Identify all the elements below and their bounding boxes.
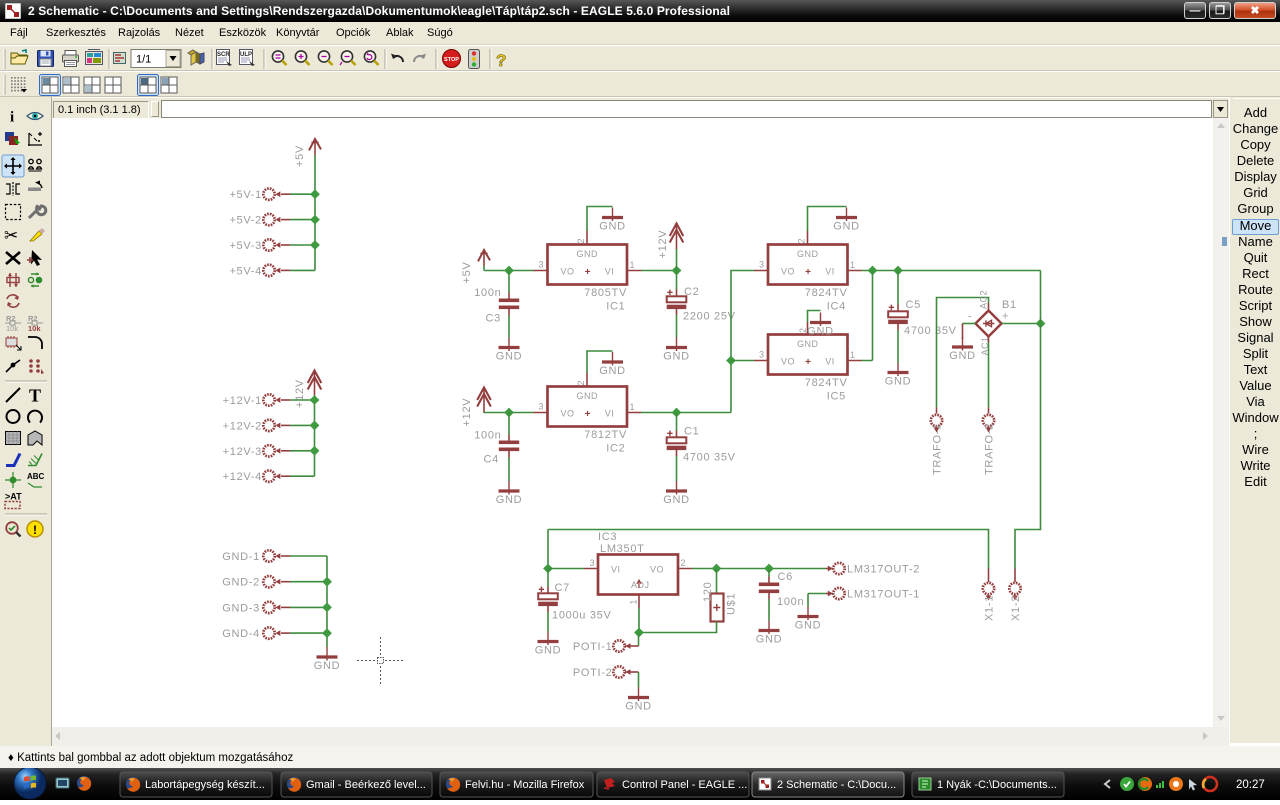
wire IC4 pin1 output bus — [862, 270, 1041, 272]
voltage regulator IC3 LM350T — [584, 569, 692, 609]
junction B1 plus rail — [1036, 319, 1046, 329]
capacitor C2 2200u 25V — [667, 290, 687, 316]
wire +12V-2 to rail — [290, 424, 315, 426]
svg-text:3: 3 — [538, 402, 544, 412]
op-amp U1 regulator IC1 7805TV — [534, 231, 642, 285]
svg-text:X1-2: X1-2 — [1010, 595, 1022, 621]
svg-text:POTI-2: POTI-2 — [573, 667, 613, 679]
wire B1 plus to output rail — [1002, 323, 1041, 325]
svg-text:1: 1 — [850, 350, 856, 360]
svg-text:1 Nyák -C:\Documents...: 1 Nyák -C:\Documents... — [937, 779, 1057, 791]
wire C4 bottom — [508, 458, 510, 482]
capacitor C4 100n — [499, 435, 519, 458]
svg-text:C6: C6 — [778, 571, 793, 583]
svg-text:100n: 100n — [777, 596, 804, 608]
wire AC1 to TRAFO-2 — [988, 337, 990, 343]
supply symbol +12V at IC2 input — [477, 387, 491, 413]
capacitor C6 100n — [759, 577, 779, 600]
supply symbol +5V (left rail) — [309, 139, 321, 155]
svg-text:+5V-1: +5V-1 — [229, 189, 262, 201]
svg-text:1: 1 — [629, 599, 639, 605]
pad TRAFO-1 — [936, 408, 938, 414]
svg-text:+12V-3: +12V-3 — [223, 446, 262, 458]
junction +12V rail — [310, 395, 320, 405]
pin wire pad GND-4 — [281, 632, 290, 634]
svg-text:R2: R2 — [6, 314, 16, 323]
svg-text:1000u 35V: 1000u 35V — [552, 610, 612, 622]
toolbar row 2 — [0, 71, 1280, 97]
wire IC5 pin2 to GND — [808, 311, 821, 323]
svg-text:Control Panel - EAGLE ...: Control Panel - EAGLE ... — [622, 779, 747, 791]
svg-text:R2: R2 — [28, 314, 38, 323]
svg-text:C2: C2 — [684, 286, 699, 298]
pad GND-2 — [263, 576, 274, 587]
svg-text:10k: 10k — [28, 324, 41, 333]
wire IC1 pin2 to GND — [587, 207, 613, 232]
ground symbol below C5 — [885, 363, 912, 388]
svg-text:7824TV: 7824TV — [805, 287, 848, 299]
wire C3 top — [508, 271, 510, 293]
wire +12V-4 to rail — [290, 475, 315, 477]
svg-text:2: 2 — [797, 238, 807, 244]
wire GND vertical rail — [326, 556, 328, 647]
pad +12V-2 — [263, 420, 274, 431]
horizontal scrollbar — [52, 727, 1229, 746]
wire GND-4 to rail — [290, 632, 327, 634]
capacitor C7 1000u 35V — [538, 587, 558, 613]
svg-text:GND-4: GND-4 — [222, 628, 260, 640]
svg-text:3: 3 — [589, 558, 595, 568]
junction GND rail — [322, 628, 332, 638]
wire IC3 ADJ drop — [638, 608, 640, 633]
wire +12V vertical rail — [314, 396, 316, 476]
svg-text:ABC: ABC — [27, 472, 45, 481]
svg-text:IC4: IC4 — [827, 301, 846, 313]
supply symbol +5V at IC1 input — [478, 250, 490, 266]
voltage regulator IC5 7824TV — [754, 321, 862, 375]
svg-text:10k: 10k — [6, 324, 18, 333]
svg-text:100n: 100n — [474, 430, 501, 442]
svg-text:1/1: 1/1 — [136, 54, 151, 66]
wire U$1 top — [716, 569, 718, 594]
svg-text:X1-1: X1-1 — [984, 595, 996, 621]
pad GND-4 — [263, 627, 274, 638]
wire ADJ to POTI-1 — [638, 633, 640, 647]
pad +12V-3 — [263, 445, 274, 456]
wire GND-2 to rail — [290, 581, 327, 583]
wire +5V to IC1 pin3 — [484, 266, 534, 271]
wire IC2 pin2 to GND — [587, 351, 613, 373]
wire C2 top — [676, 271, 678, 290]
pin wire pad GND-3 — [281, 606, 290, 608]
svg-text:4700 35V: 4700 35V — [683, 452, 736, 464]
pin wire pad GND-1 — [281, 555, 290, 557]
wire C7 bottom — [547, 612, 549, 632]
wire IC1 pin1 to C2 node — [641, 270, 677, 272]
junction +5V rail — [310, 240, 320, 250]
ground symbol above IC2 — [599, 352, 626, 377]
svg-text:20:27: 20:27 — [1236, 779, 1265, 791]
wire IC5 output riser — [862, 271, 873, 361]
wire to IC3 pin3 — [548, 568, 584, 570]
svg-text:POTI-1: POTI-1 — [573, 641, 613, 653]
svg-text:+5V: +5V — [294, 145, 306, 167]
wire C6 top — [768, 569, 770, 577]
capacitor C3 100n — [499, 293, 519, 316]
svg-text:100n: 100n — [474, 287, 501, 299]
wire +5V-3 to rail — [290, 244, 315, 246]
junction C3 tap — [504, 266, 514, 276]
pad LM317OUT-1 — [833, 588, 844, 599]
junction C6 tap — [764, 564, 774, 574]
ground symbol at B1 minus — [949, 337, 976, 362]
wire C1 bottom — [676, 456, 678, 481]
wire C5 bottom — [897, 330, 899, 363]
bridge rectifier B1 — [988, 303, 990, 311]
wire branch to IC5 pin3 — [731, 360, 754, 362]
junction ADJ node — [634, 628, 644, 638]
svg-text:IC1: IC1 — [606, 301, 625, 313]
wire C2 bottom — [676, 315, 678, 338]
pin wire pad +12V-3 — [281, 450, 290, 452]
wire C6 bottom — [768, 600, 770, 621]
capacitor C5 4700u 35V — [888, 305, 908, 331]
ground symbol below C1 — [663, 481, 690, 506]
svg-text:?: ? — [496, 51, 506, 70]
junction C1 tap — [672, 408, 682, 418]
supply symbol +12V at C2 node — [676, 249, 678, 271]
svg-text:Labortápegység készít...: Labortápegység készít... — [145, 779, 265, 791]
ground symbol below C2 — [663, 338, 690, 363]
pad +12V-1 — [263, 394, 274, 405]
pin wire pad +5V-2 — [281, 219, 290, 221]
voltage regulator IC4 7824TV — [754, 231, 862, 285]
voltage regulator IC2 7812TV — [534, 373, 642, 427]
svg-text:2: 2 — [681, 558, 687, 568]
pin wire pad +5V-3 — [281, 244, 290, 246]
svg-text:2 Schematic - C:\Docu...: 2 Schematic - C:\Docu... — [777, 779, 896, 791]
pin wire pad +12V-4 — [281, 475, 290, 477]
supply symbol +12V (left rail) — [308, 370, 322, 396]
wire +12V-3 to rail — [290, 450, 315, 452]
junction +12V rail — [310, 446, 320, 456]
svg-text:!: ! — [33, 523, 37, 537]
wire riser to IC4/IC5 inputs — [731, 271, 754, 413]
svg-text:+5V-2: +5V-2 — [229, 215, 262, 227]
pad POTI-1 — [625, 645, 639, 647]
status bar — [0, 746, 1280, 768]
svg-text:VO: VO — [650, 565, 664, 575]
svg-text:2: 2 — [576, 380, 586, 386]
wire C5 top — [897, 271, 899, 305]
svg-text:+5V-4: +5V-4 — [229, 265, 262, 277]
svg-text:LM317OUT-2: LM317OUT-2 — [847, 564, 920, 576]
svg-text:GND-1: GND-1 — [222, 551, 260, 563]
ground symbol above IC1 — [599, 208, 626, 233]
wire LM317OUT-1 to GND — [826, 593, 833, 595]
pad GND-1 — [263, 550, 274, 561]
svg-text:+12V-2: +12V-2 — [223, 420, 262, 432]
svg-text:TRAFO-1: TRAFO-1 — [932, 423, 944, 475]
wire GND-1 to rail — [290, 555, 327, 557]
junction C5 tap — [893, 266, 903, 276]
svg-text:+12V: +12V — [657, 230, 669, 259]
pad GND-3 — [263, 602, 274, 613]
wire U$1 bottom to ADJ — [639, 622, 717, 633]
pad +5V-1 — [263, 189, 274, 200]
wire +12V to IC2 pin3 — [484, 412, 534, 414]
pin wire pad +5V-4 — [281, 269, 290, 271]
svg-text:STOP: STOP — [444, 57, 459, 63]
wire B1 minus to GND — [963, 323, 976, 325]
right command panel — [1229, 97, 1280, 743]
ground symbol above IC4 — [833, 208, 860, 233]
svg-text:>AT: >AT — [5, 492, 22, 502]
ground symbol above IC5 — [807, 313, 834, 338]
junction GND rail — [322, 577, 332, 587]
pad POTI-2 — [613, 666, 624, 677]
wire IC4 pin2 to GND — [808, 207, 847, 232]
wire +5V-2 to rail — [290, 219, 315, 221]
svg-text:T: T — [29, 386, 41, 406]
wire IC3 output bus — [692, 568, 826, 570]
svg-text:B1: B1 — [1002, 299, 1017, 311]
wire C1 top — [676, 413, 678, 431]
svg-text:LM350T: LM350T — [600, 543, 645, 555]
svg-text:1: 1 — [850, 260, 856, 270]
pad X1-2 — [1009, 583, 1020, 594]
coordinate / command row — [0, 97, 1280, 118]
svg-text:Felvi.hu - Mozilla Firefox: Felvi.hu - Mozilla Firefox — [465, 779, 585, 791]
svg-text:3: 3 — [759, 350, 765, 360]
toolbar row 1 — [0, 45, 1280, 71]
svg-text:C4: C4 — [484, 454, 499, 466]
svg-text:120: 120 — [702, 582, 714, 602]
crosshair cursor — [357, 637, 403, 684]
junction U$1 tap — [712, 564, 722, 574]
wire right rail to X1-2 — [1015, 271, 1041, 569]
junction IC5 output riser — [868, 266, 878, 276]
svg-text:ULP: ULP — [240, 52, 252, 58]
svg-text:+5V: +5V — [461, 262, 473, 284]
svg-text:+5V-3: +5V-3 — [229, 240, 262, 252]
svg-text:7824TV: 7824TV — [805, 377, 848, 389]
svg-text:-: - — [968, 311, 972, 323]
resistor U$1 120 — [711, 594, 724, 622]
pad +5V-3 — [263, 239, 274, 250]
svg-text:TRAFO-2: TRAFO-2 — [984, 423, 996, 475]
junction IC3 input — [543, 564, 553, 574]
ground symbol GND rail — [314, 647, 341, 672]
wire GND-3 to rail — [290, 606, 327, 608]
svg-text:C1: C1 — [684, 426, 699, 438]
svg-text:IC2: IC2 — [606, 443, 625, 455]
svg-text:+12V: +12V — [461, 398, 473, 427]
wire +5V vertical rail — [314, 155, 316, 270]
taskbar — [0, 768, 1280, 800]
junction C4 tap — [504, 408, 514, 418]
pin wire pad +12V-1 — [281, 399, 290, 401]
svg-text:7805TV: 7805TV — [584, 287, 627, 299]
ground symbol below C4 — [496, 481, 523, 506]
wire C4 top — [508, 413, 510, 435]
wire +5V-4 to rail — [290, 269, 315, 271]
junction +12V rail — [310, 421, 320, 431]
svg-text:C3: C3 — [486, 313, 501, 325]
svg-text:LM317OUT-1: LM317OUT-1 — [847, 589, 920, 601]
svg-text:C5: C5 — [906, 299, 921, 311]
wire IC2 pin1 to C1 node — [641, 412, 731, 414]
svg-text:GND-2: GND-2 — [222, 577, 260, 589]
wire bottom rail to X1-1 — [548, 530, 989, 569]
pad TRAFO-2 — [988, 408, 990, 414]
wire AC2 to TRAFO-1 — [937, 298, 989, 408]
pin wire pad +5V-1 — [281, 193, 290, 195]
junction +5V rail — [310, 189, 320, 199]
svg-text:2: 2 — [576, 238, 586, 244]
svg-text:C7: C7 — [555, 582, 570, 594]
menu bar — [0, 22, 1280, 45]
svg-text:✂: ✂ — [4, 226, 18, 245]
wire C7 top — [547, 569, 549, 587]
svg-text:AC2: AC2 — [979, 290, 989, 309]
svg-text:GND-3: GND-3 — [222, 602, 260, 614]
svg-text:3: 3 — [538, 260, 544, 270]
svg-text:SCR: SCR — [217, 52, 230, 58]
svg-text:+12V-4: +12V-4 — [223, 471, 262, 483]
junction IC5 input branch — [726, 356, 736, 366]
wire +12V-1 to rail — [290, 399, 315, 401]
junction C2 node — [672, 266, 682, 276]
svg-text:VI: VI — [611, 565, 621, 575]
junction GND rail — [322, 603, 332, 613]
capacitor C1 4700u 35V — [667, 431, 687, 457]
pad LM317OUT-2 — [826, 568, 833, 570]
junction +5V rail — [310, 215, 320, 225]
pad X1-1 — [983, 583, 994, 594]
pad +5V-2 — [263, 214, 274, 225]
svg-text:1: 1 — [630, 402, 636, 412]
left tool palette — [0, 97, 52, 746]
ground symbol below C7 — [535, 632, 562, 657]
pin wire pad +12V-2 — [281, 424, 290, 426]
svg-text:+12V: +12V — [294, 379, 306, 408]
pin wire pad GND-2 — [281, 581, 290, 583]
ground symbol at LM317OUT-1 — [795, 607, 822, 632]
svg-text:i: i — [10, 110, 14, 126]
pad +12V-4 — [263, 471, 274, 482]
svg-text:IC3: IC3 — [598, 531, 617, 543]
svg-text:1: 1 — [630, 260, 636, 270]
svg-text:2200 25V: 2200 25V — [683, 311, 736, 323]
wire input drop to IC3 — [547, 530, 549, 569]
svg-text:+: + — [1002, 311, 1009, 323]
vertical scrollbar — [1213, 118, 1229, 727]
wire POTI-2 to GND — [625, 671, 639, 673]
svg-text:3: 3 — [759, 260, 765, 270]
svg-text:U$1: U$1 — [726, 593, 738, 615]
wire +5V-1 to rail — [290, 193, 315, 195]
svg-text:4700 35V: 4700 35V — [904, 325, 957, 337]
pad +5V-4 — [263, 265, 274, 276]
svg-text:Gmail - Beérkező level...: Gmail - Beérkező level... — [306, 779, 426, 791]
wire C3 bottom — [508, 316, 510, 338]
ground symbol below C3 — [496, 338, 523, 363]
ground symbol below C6 — [756, 621, 783, 646]
ground symbol below POTI-2 — [625, 688, 652, 713]
svg-text:7812TV: 7812TV — [584, 429, 627, 441]
svg-text:IC5: IC5 — [827, 391, 846, 403]
schematic canvas — [52, 118, 1213, 727]
window title bar — [0, 0, 1280, 22]
svg-text:+12V-1: +12V-1 — [223, 395, 262, 407]
